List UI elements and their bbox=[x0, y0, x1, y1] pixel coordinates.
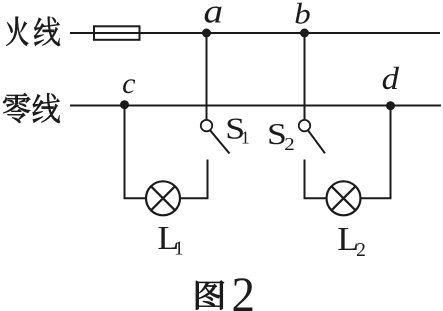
wire lamp L1 left lead bbox=[124, 197, 147, 199]
svg-text:2: 2 bbox=[232, 268, 256, 311]
lamp L2 bbox=[327, 181, 361, 215]
wire node a down to switch S1 bbox=[206, 33, 208, 120]
switch S1 blade (open) bbox=[210, 130, 229, 153]
wire lamp L2 right lead bbox=[361, 197, 392, 199]
wire node c down bbox=[124, 105, 126, 199]
svg-text:1: 1 bbox=[241, 128, 250, 148]
switch S2 pivot circle bbox=[299, 120, 310, 131]
label huoxian (live wire) bbox=[6, 16, 29, 46]
node d bbox=[386, 102, 394, 110]
lamp L1 bbox=[146, 181, 180, 215]
wire lamp L1 right lead bbox=[180, 197, 209, 199]
caption character tu (figure) bbox=[196, 280, 224, 309]
svg-text:2: 2 bbox=[356, 239, 366, 262]
svg-text:d: d bbox=[382, 62, 400, 97]
fuse F1 bbox=[94, 26, 140, 40]
wire neutral line (lingxian) bbox=[70, 105, 441, 107]
wire node d down bbox=[390, 106, 392, 199]
wire switch S1 lower terminal bbox=[207, 160, 209, 199]
wire node b down to switch S2 bbox=[304, 33, 306, 120]
svg-text:c: c bbox=[122, 67, 135, 100]
node b bbox=[300, 29, 308, 37]
wire live line (huoxian) bbox=[70, 32, 440, 34]
svg-text:b: b bbox=[294, 0, 310, 30]
label lingxian (neutral wire) bbox=[3, 93, 30, 123]
node c bbox=[120, 101, 128, 109]
switch S2 blade (open) bbox=[308, 130, 325, 153]
switch S1 pivot circle bbox=[201, 120, 212, 131]
svg-text:2: 2 bbox=[284, 135, 294, 154]
wire lamp L2 left lead bbox=[304, 197, 327, 199]
svg-text:a: a bbox=[204, 0, 224, 30]
svg-text:1: 1 bbox=[174, 239, 184, 260]
wire switch S2 lower terminal bbox=[304, 160, 306, 199]
node a bbox=[202, 29, 210, 37]
